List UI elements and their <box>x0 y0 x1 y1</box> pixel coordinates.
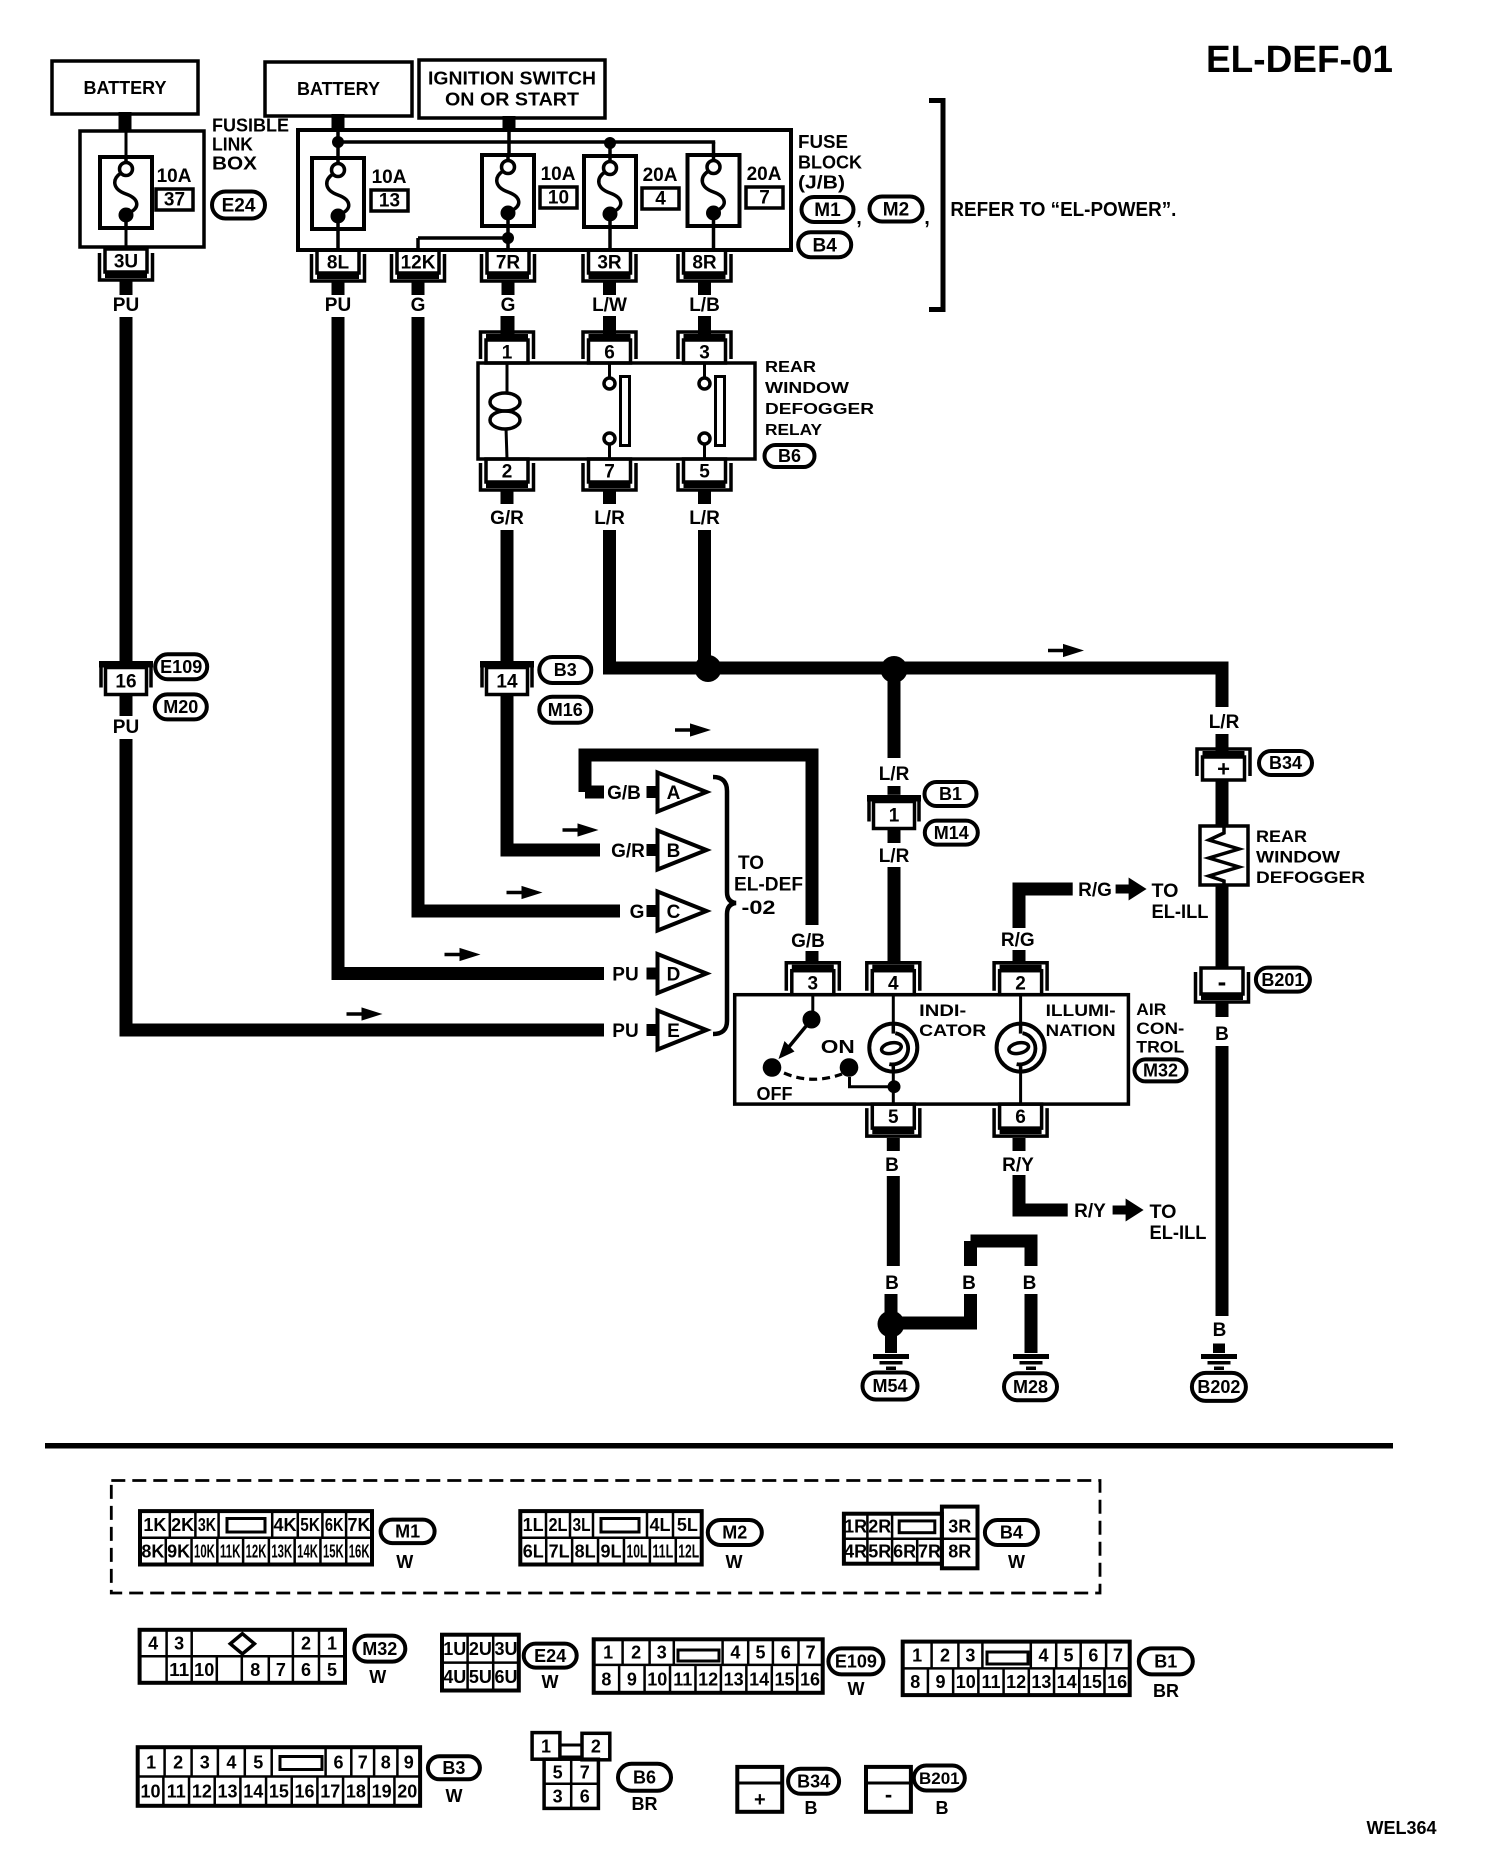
svg-text:L/R: L/R <box>689 508 720 529</box>
svg-text:R/Y: R/Y <box>1074 1201 1106 1222</box>
battery (right) <box>265 62 412 116</box>
svg-text:1U: 1U <box>443 1639 466 1659</box>
wire label PU at arrow E <box>612 1021 638 1042</box>
svg-text:7R: 7R <box>918 1542 941 1562</box>
svg-text:4: 4 <box>226 1752 236 1772</box>
svg-text:15K: 15K <box>323 1542 344 1562</box>
terminal B34 (table) <box>737 1767 782 1812</box>
relay pin connector 6 <box>583 316 636 363</box>
connector grid B1 <box>903 1642 1130 1696</box>
svg-text:M32: M32 <box>362 1639 397 1659</box>
svg-text:-: - <box>1218 966 1227 996</box>
wire label G at x=508 <box>501 281 516 316</box>
illumination lamp <box>997 995 1116 1104</box>
wire label G/R below relay <box>490 490 524 529</box>
svg-text:M20: M20 <box>163 697 198 717</box>
relay pin connector 1 <box>481 316 534 363</box>
svg-text:7R: 7R <box>496 252 521 273</box>
connector label oval M1 <box>802 197 862 229</box>
svg-text:CATOR: CATOR <box>919 1021 986 1040</box>
fuse block label and ovals M1 M2 B4 <box>798 132 862 193</box>
svg-text:FUSE: FUSE <box>798 132 848 152</box>
svg-text:5R: 5R <box>868 1542 891 1562</box>
svg-text:M28: M28 <box>1013 1377 1048 1397</box>
svg-text:BATTERY: BATTERY <box>84 78 167 98</box>
svg-text:1: 1 <box>603 1643 613 1663</box>
connector label oval M1 (table) <box>381 1520 435 1572</box>
svg-text:5: 5 <box>253 1752 263 1772</box>
direction arrow row E <box>347 1007 383 1020</box>
svg-text:R/G: R/G <box>1001 930 1035 951</box>
svg-text:11L: 11L <box>652 1542 673 1562</box>
wire label B above ground B202 <box>1213 1320 1227 1341</box>
svg-text:1K: 1K <box>143 1515 166 1535</box>
svg-text:13K: 13K <box>271 1542 292 1562</box>
svg-text:8K: 8K <box>141 1542 164 1562</box>
wire label PU at x=126 <box>113 281 139 316</box>
air control M32 box <box>735 995 1129 1104</box>
svg-text:L/W: L/W <box>592 295 627 316</box>
svg-text:R/G: R/G <box>1078 880 1112 901</box>
svg-text:3U: 3U <box>494 1639 517 1659</box>
relay contact 3-5 <box>699 363 725 459</box>
svg-text:M54: M54 <box>872 1376 907 1396</box>
svg-text:10A: 10A <box>157 166 192 187</box>
svg-text:B3: B3 <box>554 660 577 680</box>
svg-text:B202: B202 <box>1197 1377 1240 1397</box>
svg-text:15: 15 <box>775 1669 795 1689</box>
wire L/R connector 1 to air control pin 4 <box>879 829 910 964</box>
svg-text:17: 17 <box>320 1782 340 1802</box>
connector label oval B4 (table) <box>985 1520 1038 1572</box>
svg-text:2K: 2K <box>171 1515 194 1535</box>
svg-text:8: 8 <box>381 1752 391 1772</box>
connector 1 (B1/M14) <box>867 795 921 829</box>
svg-text:EL-ILL: EL-ILL <box>1152 902 1209 923</box>
svg-text:3: 3 <box>965 1645 975 1665</box>
wire label G/R at arrow B <box>611 841 645 862</box>
svg-text:EL-DEF-01: EL-DEF-01 <box>1206 39 1393 81</box>
ground M54 <box>873 1336 909 1370</box>
svg-text:DEFOGGER: DEFOGGER <box>1256 868 1365 887</box>
svg-text:6: 6 <box>781 1643 791 1663</box>
arrow B <box>647 831 707 870</box>
svg-text:37: 37 <box>164 190 185 211</box>
svg-text:W: W <box>396 1552 413 1572</box>
wire R/G to EL-ILL <box>1019 889 1073 928</box>
connector label oval B3 <box>539 657 591 683</box>
wire label L/W at x=609.5 <box>592 281 627 316</box>
connector label oval B1 <box>925 782 977 806</box>
svg-text:,: , <box>856 207 862 229</box>
svg-text:5K: 5K <box>300 1515 320 1535</box>
connector label oval M20 <box>155 694 207 719</box>
connector label oval M2 (table) <box>708 1520 762 1572</box>
svg-text:4: 4 <box>730 1643 740 1663</box>
svg-text:EL-DEF: EL-DEF <box>734 875 803 896</box>
terminal B201 (table) <box>866 1767 911 1812</box>
svg-text:B: B <box>936 1798 949 1818</box>
wire label PU at x=338 <box>325 281 351 316</box>
svg-text:G: G <box>411 295 426 316</box>
separator line <box>45 1443 1393 1449</box>
rear window defogger relay B6 box <box>478 363 755 459</box>
svg-text:M1: M1 <box>395 1522 420 1542</box>
svg-text:-: - <box>885 1782 892 1807</box>
brace TO EL-DEF-02 <box>713 777 803 1034</box>
air control pin connector 2 <box>994 963 1047 995</box>
connector 3R <box>583 250 636 281</box>
svg-text:10K: 10K <box>194 1542 215 1562</box>
svg-text:18: 18 <box>346 1782 366 1802</box>
svg-text:3L: 3L <box>573 1515 591 1535</box>
svg-text:8L: 8L <box>575 1542 596 1562</box>
svg-text:3U: 3U <box>114 251 138 272</box>
svg-text:14: 14 <box>243 1782 263 1802</box>
svg-text:B: B <box>962 1273 976 1294</box>
connector label oval B6 (table) <box>618 1764 671 1814</box>
svg-text:7: 7 <box>276 1660 286 1680</box>
svg-text:INDI-: INDI- <box>919 1001 966 1020</box>
svg-text:12: 12 <box>192 1782 212 1802</box>
wire label L/R below relay <box>689 490 720 529</box>
svg-text:L/R: L/R <box>1209 712 1240 733</box>
ground B202 <box>1201 1344 1237 1371</box>
drawing number WEL364 <box>1367 1818 1437 1838</box>
svg-text:13: 13 <box>218 1782 238 1802</box>
svg-text:8: 8 <box>910 1672 920 1692</box>
relay pin connector 7 <box>583 459 636 490</box>
svg-text:B1: B1 <box>939 784 962 804</box>
svg-text:7: 7 <box>806 1643 816 1663</box>
svg-text:L/R: L/R <box>879 764 910 785</box>
svg-text:EL-ILL: EL-ILL <box>1150 1223 1207 1244</box>
svg-text:(J/B): (J/B) <box>798 173 845 193</box>
connector label oval E24 <box>212 192 265 219</box>
air control pin connector 4 <box>867 963 920 995</box>
svg-text:9: 9 <box>404 1752 414 1772</box>
wire label G at arrow C <box>630 902 645 923</box>
relay contact 6-7 <box>604 363 630 459</box>
svg-text:7: 7 <box>604 461 615 482</box>
svg-text:6K: 6K <box>325 1515 344 1535</box>
title EL-DEF-01 <box>1206 39 1393 81</box>
svg-text:8R: 8R <box>692 252 717 273</box>
svg-text:TO: TO <box>1150 1202 1177 1223</box>
svg-text:G: G <box>630 902 645 923</box>
svg-text:5: 5 <box>699 461 710 482</box>
wire PU from 3U down to connector 16 <box>120 317 133 661</box>
svg-text:B1: B1 <box>1154 1652 1177 1672</box>
svg-text:M14: M14 <box>934 823 969 843</box>
svg-text:AIR: AIR <box>1136 1000 1166 1019</box>
wire label B below pin 5 <box>885 1138 900 1176</box>
direction arrow row D <box>445 948 481 961</box>
svg-text:B4: B4 <box>813 235 838 256</box>
svg-text:W: W <box>1008 1552 1025 1572</box>
svg-text:11: 11 <box>981 1672 1000 1692</box>
svg-text:2: 2 <box>502 461 513 482</box>
svg-text:8: 8 <box>250 1660 260 1680</box>
svg-text:RELAY: RELAY <box>765 422 822 439</box>
wire ignition switch to fuse block <box>503 116 516 131</box>
svg-text:20A: 20A <box>747 164 782 185</box>
svg-text:REAR: REAR <box>1256 827 1307 846</box>
connector label oval B6 <box>765 445 815 467</box>
svg-text:B34: B34 <box>1269 753 1302 773</box>
svg-text:2: 2 <box>173 1752 183 1772</box>
svg-text:NATION: NATION <box>1046 1021 1116 1040</box>
junction dot battery feed <box>332 136 344 148</box>
svg-text:G/B: G/B <box>791 931 825 952</box>
svg-text:16K: 16K <box>349 1542 370 1562</box>
svg-text:5: 5 <box>888 1107 899 1128</box>
air control switch <box>757 995 889 1104</box>
svg-text:4K: 4K <box>273 1515 296 1535</box>
svg-text:6: 6 <box>604 342 615 363</box>
svg-text:BATTERY: BATTERY <box>297 79 380 99</box>
svg-text:LINK: LINK <box>212 135 253 155</box>
svg-text:5: 5 <box>553 1763 563 1783</box>
wire label G/B above air control pin 3 <box>791 931 825 963</box>
connector grid E109 <box>594 1639 823 1693</box>
svg-text:BR: BR <box>632 1794 658 1814</box>
svg-text:5U: 5U <box>469 1667 492 1687</box>
wire label R/Y below pin 6 <box>1002 1138 1034 1176</box>
arrow to EL-ILL (R/G) <box>1116 878 1209 924</box>
connector grid M32 <box>140 1630 345 1683</box>
svg-text:11: 11 <box>673 1669 692 1689</box>
svg-text:1: 1 <box>889 806 900 827</box>
svg-text:3: 3 <box>553 1787 563 1807</box>
svg-text:16: 16 <box>115 672 136 693</box>
wire L/R junction to connector 1 <box>879 668 910 795</box>
terminal label oval B34 (table) <box>788 1769 839 1818</box>
svg-text:M16: M16 <box>548 700 583 720</box>
wire label PU at arrow D <box>612 965 638 986</box>
ground label oval B202 <box>1192 1373 1246 1401</box>
svg-text:5L: 5L <box>677 1515 698 1535</box>
svg-text:PU: PU <box>113 717 139 738</box>
svg-text:B: B <box>1215 1024 1229 1045</box>
svg-text:3R: 3R <box>597 252 622 273</box>
connector 14 <box>480 661 534 695</box>
svg-text:12: 12 <box>698 1669 718 1689</box>
svg-text:PU: PU <box>325 295 351 316</box>
connector 16 <box>99 661 153 695</box>
svg-text:2L: 2L <box>549 1515 568 1535</box>
connector 12K <box>392 250 445 281</box>
svg-text:7K: 7K <box>348 1515 371 1535</box>
svg-text:C: C <box>667 902 681 923</box>
svg-text:3K: 3K <box>198 1515 216 1535</box>
svg-text:2: 2 <box>301 1634 311 1654</box>
svg-text:REFER TO “EL-POWER”.: REFER TO “EL-POWER”. <box>950 199 1176 221</box>
air control pin connector 6 <box>994 1104 1047 1136</box>
wire label L/B at x=704.5 <box>689 281 720 316</box>
svg-text:3R: 3R <box>948 1517 971 1537</box>
connector label oval E109 (table) <box>828 1648 883 1699</box>
wire G/R from connector 14 to arrow B <box>507 695 600 851</box>
svg-text:15: 15 <box>269 1782 289 1802</box>
svg-text:2: 2 <box>591 1737 601 1757</box>
svg-text:19: 19 <box>372 1782 392 1802</box>
svg-text:E109: E109 <box>160 657 202 677</box>
svg-text:1R: 1R <box>844 1517 867 1537</box>
svg-text:E: E <box>667 1021 680 1042</box>
svg-text:A: A <box>667 783 681 804</box>
fuse 20A 4 <box>584 156 679 251</box>
svg-text:12K: 12K <box>401 252 436 273</box>
ignition switch on or start <box>419 60 605 118</box>
svg-text:10A: 10A <box>541 164 576 185</box>
svg-text:G/B: G/B <box>607 783 641 804</box>
svg-text:B4: B4 <box>1000 1523 1023 1543</box>
connector B201 (-) <box>1196 966 1249 1002</box>
connector 7R <box>482 250 535 281</box>
svg-text:FUSIBLE: FUSIBLE <box>212 116 289 136</box>
relay pin connector 2 <box>481 459 534 490</box>
connector label oval M14 <box>925 821 978 845</box>
wire G/B arrow A loop to air control pin 3 <box>585 755 812 925</box>
battery (left) <box>52 61 198 114</box>
svg-text:10A: 10A <box>372 167 407 188</box>
svg-text:1: 1 <box>912 1645 922 1665</box>
svg-text:DEFOGGER: DEFOGGER <box>765 401 875 418</box>
svg-text:G/R: G/R <box>490 508 524 529</box>
svg-text:B: B <box>885 1273 899 1294</box>
ground label oval M54 <box>863 1373 918 1400</box>
svg-text:TO: TO <box>738 853 764 874</box>
svg-text:14K: 14K <box>297 1542 318 1562</box>
connector B34 (+) <box>1197 749 1250 781</box>
junction dot main line right <box>881 656 908 683</box>
svg-text:4R: 4R <box>844 1542 867 1562</box>
svg-text:7: 7 <box>759 188 770 209</box>
svg-text:13: 13 <box>1031 1672 1051 1692</box>
wire G from 12K to arrow C <box>418 317 620 911</box>
svg-text:1: 1 <box>502 342 513 363</box>
svg-text:B201: B201 <box>919 1769 960 1788</box>
svg-text:B: B <box>805 1798 818 1818</box>
indicator lamp <box>869 995 986 1104</box>
svg-text:IGNITION SWITCH: IGNITION SWITCH <box>428 69 596 89</box>
relay coil <box>490 363 520 459</box>
connector 8L <box>312 250 365 281</box>
svg-text:1L: 1L <box>523 1515 544 1535</box>
svg-text:9: 9 <box>627 1669 637 1689</box>
wire L/R relay pin7 to main line and right column <box>610 530 1223 707</box>
junction dot ground M54 <box>878 1311 905 1338</box>
svg-text:20A: 20A <box>643 165 678 186</box>
fuse 10A 10 <box>482 155 577 238</box>
svg-text:L/R: L/R <box>594 508 625 529</box>
wire L/R relay pin5 to junction <box>698 530 711 668</box>
wire ignition feed inside fuse block <box>507 131 511 156</box>
svg-text:B: B <box>885 1155 899 1176</box>
wire R/Y to EL-ILL <box>1019 1175 1068 1210</box>
connector label oval E24 (table) <box>524 1644 577 1692</box>
svg-text:ON OR START: ON OR START <box>445 90 579 110</box>
svg-text:2U: 2U <box>469 1639 492 1659</box>
connector label oval B4 <box>798 232 851 257</box>
arrow D <box>647 954 707 993</box>
svg-text:G: G <box>501 295 516 316</box>
svg-text:L/R: L/R <box>879 846 910 867</box>
relay pin connector 3 <box>678 316 731 363</box>
fusible link 10A 37 <box>100 131 193 250</box>
svg-text:TO: TO <box>1152 881 1179 902</box>
connector label oval B3 (table) <box>428 1756 480 1806</box>
connector label oval B1 (table) <box>1139 1648 1193 1701</box>
svg-text:2R: 2R <box>868 1517 891 1537</box>
connector label oval M16 <box>539 697 591 723</box>
svg-text:W: W <box>848 1679 865 1699</box>
terminal label oval B201 (table) <box>914 1766 965 1819</box>
wire label L/R below relay <box>594 490 625 529</box>
connector grid B6 <box>532 1733 610 1809</box>
svg-text:E109: E109 <box>835 1652 877 1672</box>
svg-text:PU: PU <box>113 295 139 316</box>
connector grid M2 <box>520 1511 701 1564</box>
wire battery-left to fusible link box <box>119 112 132 132</box>
svg-text:13: 13 <box>379 191 400 212</box>
svg-text:6U: 6U <box>494 1667 517 1687</box>
wire label L/R right column <box>1209 712 1240 752</box>
svg-text:B6: B6 <box>633 1768 656 1788</box>
svg-text:BR: BR <box>1153 1681 1179 1701</box>
svg-text:5: 5 <box>756 1643 766 1663</box>
svg-text:16: 16 <box>800 1669 820 1689</box>
svg-text:16: 16 <box>295 1782 315 1802</box>
air control pin connector 3 <box>786 963 839 995</box>
svg-text:B: B <box>667 841 681 862</box>
connector label oval E109 <box>155 654 207 679</box>
svg-text:ON: ON <box>821 1037 855 1057</box>
direction arrow on main line <box>1048 644 1084 657</box>
dashed box around M1 M2 B4 <box>111 1481 1100 1594</box>
svg-text:E24: E24 <box>534 1646 566 1666</box>
connector label oval M2 <box>870 197 930 230</box>
fuse 20A 7 <box>688 155 784 251</box>
svg-text:6: 6 <box>1015 1107 1026 1128</box>
wire battery feed inside fuse block <box>338 131 715 158</box>
svg-text:2: 2 <box>1015 974 1026 995</box>
arrow C <box>647 892 707 931</box>
svg-text:W: W <box>369 1667 386 1687</box>
svg-text:16: 16 <box>1107 1672 1127 1692</box>
svg-text:6: 6 <box>333 1752 343 1772</box>
air control label <box>1136 1000 1184 1057</box>
svg-text:B34: B34 <box>797 1772 830 1792</box>
svg-text:5: 5 <box>327 1660 337 1680</box>
svg-text:10: 10 <box>647 1669 667 1689</box>
svg-text:10: 10 <box>141 1782 161 1802</box>
wire label R/G above air control pin 2 <box>1001 925 1035 963</box>
svg-text:11: 11 <box>167 1782 186 1802</box>
ground M28 <box>1013 1354 1049 1370</box>
svg-text:OFF: OFF <box>757 1084 793 1104</box>
wire PU from 8L to arrow D <box>338 317 604 974</box>
svg-text:M2: M2 <box>883 200 909 221</box>
svg-text:2: 2 <box>940 1645 950 1665</box>
svg-text:6: 6 <box>1088 1645 1098 1665</box>
wire label R/G at arrow <box>1078 880 1112 901</box>
svg-text:7: 7 <box>1113 1645 1123 1665</box>
connector label oval B201 <box>1256 968 1310 992</box>
svg-text:M1: M1 <box>814 200 841 221</box>
svg-text:2: 2 <box>631 1643 641 1663</box>
